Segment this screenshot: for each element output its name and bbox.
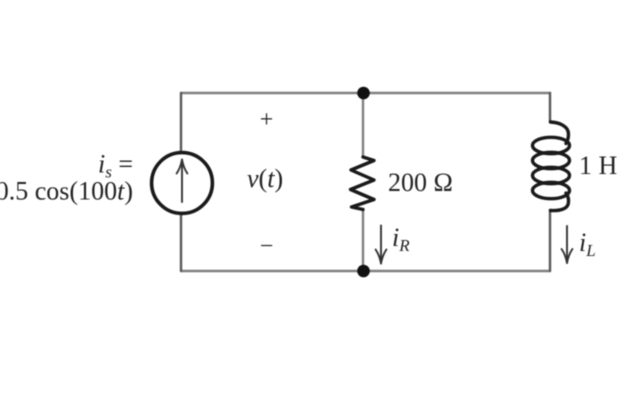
wire left upper segment bbox=[180, 93, 182, 152]
node A (top junction dot) bbox=[357, 87, 370, 100]
current source I1 circle bbox=[152, 153, 213, 214]
resistor R (200 ohm) zigzag bbox=[351, 157, 375, 210]
wire bottom rail bbox=[181, 270, 550, 272]
inductor L loop 1 bbox=[533, 137, 570, 153]
svg-text:1 H: 1 H bbox=[579, 151, 618, 180]
wire middle lower segment bbox=[362, 209, 364, 271]
wire right lower segment bbox=[549, 210, 551, 271]
wire right upper segment bbox=[549, 93, 551, 122]
current source I1 arrow bbox=[177, 160, 188, 203]
current arrow iL bbox=[562, 226, 573, 263]
wire middle upper segment bbox=[362, 93, 364, 157]
inductor L loop 2 bbox=[533, 152, 570, 168]
current arrow iR bbox=[376, 226, 387, 264]
svg-text:v(t): v(t) bbox=[247, 164, 283, 193]
inductor L loop 3 bbox=[533, 167, 570, 183]
wire top (node A to node B rail) bbox=[181, 92, 550, 94]
svg-text:−: − bbox=[260, 234, 274, 260]
node B (bottom junction dot) bbox=[357, 265, 370, 278]
wire left lower segment bbox=[180, 214, 182, 271]
svg-text:+: + bbox=[260, 107, 274, 133]
inductor L exit hook bbox=[551, 193, 569, 211]
inductor L (1 H) entry hook bbox=[551, 122, 569, 144]
svg-text:iR: iR bbox=[392, 223, 410, 255]
inductor L loop 4 bbox=[533, 182, 570, 198]
svg-text:200 Ω: 200 Ω bbox=[388, 168, 453, 197]
svg-text:0.5 cos(100t): 0.5 cos(100t) bbox=[0, 177, 133, 206]
svg-text:iL: iL bbox=[579, 228, 596, 260]
